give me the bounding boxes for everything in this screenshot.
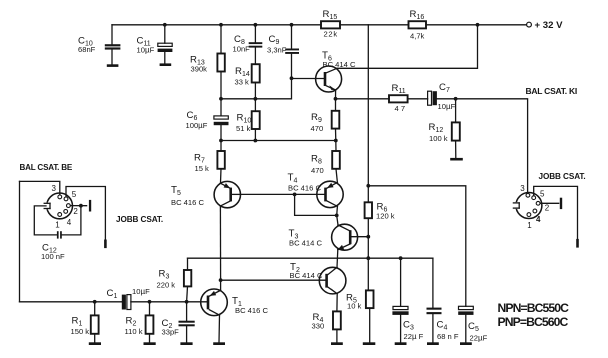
svg-text:120 k: 120 k: [376, 212, 395, 221]
svg-text:22µ F: 22µ F: [404, 332, 424, 341]
pin 3 (left DIN): [58, 195, 62, 199]
resistor R11: [389, 83, 408, 113]
node T6 emitter: [334, 97, 338, 101]
resistor R10: [236, 99, 260, 141]
svg-text:10µF: 10µF: [137, 46, 155, 55]
ground (C5): [460, 342, 472, 345]
wire left DIN pin2 to chassis ground: [71, 205, 87, 207]
ground chassis bar (left DIN): [89, 200, 91, 212]
svg-text:BC 414 C: BC 414 C: [289, 238, 322, 247]
node R3/C2 junction: [185, 300, 189, 304]
node T5/T4 base junction: [293, 193, 297, 197]
resistor R8: [311, 141, 340, 176]
capacitor C5 (electrolytic): [458, 306, 487, 342]
ground chassis bar (right DIN): [560, 198, 562, 209]
capacitor C10: [78, 25, 120, 65]
node T6 base junction: [290, 76, 294, 80]
wire T3 emitter to T2 collector: [336, 250, 339, 268]
node T4 collector / T3 collector: [335, 214, 339, 218]
capacitor C4: [427, 258, 459, 342]
wire C12 riser: [62, 206, 81, 235]
resistor R9: [311, 99, 340, 141]
svg-text:PNP=BC560C: PNP=BC560C: [498, 315, 569, 329]
wire top +32V rail left segment: [112, 24, 321, 26]
svg-text:100 k: 100 k: [429, 134, 448, 143]
wire T6 emitter down: [335, 90, 337, 99]
svg-text:68nF: 68nF: [78, 45, 96, 54]
svg-text:100µF: 100µF: [186, 121, 208, 130]
svg-text:2: 2: [545, 204, 550, 213]
node rail-C3: [399, 256, 403, 260]
svg-text:BAL CSAT. KI: BAL CSAT. KI: [526, 86, 577, 96]
node pin2/C12: [79, 204, 83, 208]
svg-text:JOBB CSAT.: JOBB CSAT.: [539, 172, 586, 181]
svg-text:2: 2: [73, 207, 78, 216]
ground (R2): [144, 342, 156, 345]
node rail-C9: [290, 23, 294, 27]
svg-text:68 n F: 68 n F: [437, 332, 459, 341]
resistor R1: [71, 302, 99, 343]
pin 1 (left DIN): [58, 213, 62, 217]
wire input left vertical: [19, 181, 21, 301]
ground (R1): [89, 342, 101, 345]
capacitor C3 (electrolytic): [392, 258, 423, 342]
node T3 base: [366, 235, 370, 239]
svg-text:150 k: 150 k: [71, 327, 90, 336]
svg-text:10nF: 10nF: [233, 45, 251, 54]
node bias-R10: [254, 97, 258, 101]
wire R11 to C7: [408, 98, 428, 100]
power terminal +32V: [527, 20, 564, 31]
wire T2 base: [221, 279, 326, 281]
transistor T6: [316, 51, 356, 93]
wire T1 emitter up to node: [220, 280, 222, 290]
bottom feedback rail: [188, 257, 433, 259]
node C7-R12: [454, 97, 458, 101]
wire T2 emitter to R4: [336, 294, 338, 312]
svg-text:22µF: 22µF: [470, 334, 488, 343]
wire right DIN pin2 to chassis ground: [540, 202, 558, 204]
wire T1 collector to ground: [218, 315, 221, 342]
capacitor C1 (electrolytic): [107, 287, 151, 310]
pin 1 (right DIN): [527, 213, 531, 217]
svg-text:4: 4: [536, 215, 541, 224]
resistor R4: [312, 311, 341, 342]
wire T5 base to T4 base: [240, 193, 294, 195]
wire feedback to C5: [368, 186, 466, 306]
svg-text:5: 5: [540, 190, 545, 199]
transistor T1: [201, 289, 269, 316]
svg-text:4: 4: [67, 218, 72, 227]
svg-text:33pF: 33pF: [162, 328, 180, 337]
wire input bottom row: [20, 301, 122, 303]
wire C9 node down to bias line: [221, 78, 292, 99]
wire T6 collector to +32V riser: [337, 25, 478, 69]
svg-text:15 k: 15 k: [195, 164, 210, 173]
capacitor C11 (electrolytic): [137, 25, 173, 64]
node mid-R10: [254, 139, 258, 143]
resistor R6: [365, 201, 395, 236]
svg-text:3: 3: [520, 184, 525, 193]
svg-text:330: 330: [312, 322, 325, 331]
resistor R5: [346, 258, 374, 342]
pin 5 (left DIN): [64, 197, 68, 201]
node rail-C8: [254, 23, 258, 27]
wire C12 left to notch: [34, 206, 57, 235]
stub end tick (right): [576, 240, 579, 246]
node rail-R13: [219, 23, 223, 27]
capacitor C7 (electrolytic): [428, 82, 456, 111]
pin 2 (right DIN): [536, 201, 540, 205]
svg-text:4 7: 4 7: [395, 104, 406, 113]
node R2: [148, 300, 152, 304]
ground (R4): [331, 342, 343, 345]
capacitor C6 (electrolytic): [186, 99, 229, 141]
wire C7 to output corner: [437, 99, 528, 193]
DIN connector input (left): [44, 193, 73, 219]
capacitor C8: [233, 25, 263, 64]
transistor T2: [290, 262, 346, 294]
node rail-R5 column: [366, 256, 370, 260]
resistor R3: [157, 258, 192, 302]
resistor R15: [321, 9, 340, 39]
transistor T4: [288, 173, 344, 208]
wire top rail right segment: [426, 24, 527, 26]
wire base node down and right to T4 collector node: [295, 194, 337, 215]
resistor R2: [125, 302, 154, 343]
pin 3 (right DIN): [526, 193, 530, 197]
svg-text:BC 414 C: BC 414 C: [290, 271, 323, 280]
svg-text:3,3nF: 3,3nF: [267, 45, 287, 54]
svg-text:NPN=BC550C: NPN=BC550C: [498, 301, 570, 315]
wire long vertical from rail node: [367, 25, 369, 203]
resistor R16: [409, 9, 427, 41]
svg-text:5: 5: [72, 190, 77, 199]
svg-text:100 nF: 100 nF: [41, 252, 65, 261]
resistor R14: [235, 64, 260, 99]
svg-text:470: 470: [311, 124, 324, 133]
wire top rail middle segment: [340, 24, 409, 26]
svg-text:110 k: 110 k: [125, 327, 143, 336]
wire left DIN pin5 to channel stub: [66, 187, 105, 244]
transistor T5: [171, 181, 241, 207]
svg-text:51 k: 51 k: [236, 124, 251, 133]
svg-text:1: 1: [527, 221, 532, 230]
pin 2 (left DIN): [67, 204, 71, 208]
capacitor C12: [41, 231, 65, 261]
ground (C4): [427, 342, 439, 345]
svg-text:+ 32 V: + 32 V: [535, 20, 564, 31]
wire C1 to T1 base: [131, 301, 207, 303]
ground (C11): [160, 63, 172, 66]
svg-text:4,7k: 4,7k: [410, 32, 425, 41]
svg-text:BC 416 C: BC 416 C: [235, 306, 268, 315]
svg-text:BC 414 C: BC 414 C: [323, 60, 356, 69]
node rail-C11: [163, 23, 167, 27]
capacitor C9: [267, 25, 299, 79]
ground (R5): [363, 342, 376, 345]
svg-text:JOBB CSAT.: JOBB CSAT.: [116, 215, 163, 224]
svg-text:390k: 390k: [191, 64, 208, 73]
svg-text:BC 416 C: BC 416 C: [288, 183, 321, 192]
wire right DIN pin5 to channel stub: [534, 186, 578, 243]
pin 4 (left DIN): [64, 210, 68, 214]
wire mid row y140: [221, 140, 336, 142]
transistor T3: [289, 224, 369, 250]
stub end tick (left): [104, 241, 107, 247]
svg-text:220 k: 220 k: [157, 281, 176, 290]
node T1 emitter / T5 collector: [219, 278, 223, 282]
ground (C10): [107, 64, 119, 67]
wire emitter row to R11: [336, 98, 390, 100]
node feedback junction: [366, 184, 370, 188]
pin 5 (right DIN): [532, 196, 536, 200]
node mid-R9R8: [334, 139, 338, 143]
svg-text:3: 3: [52, 184, 57, 193]
node mid-C6R7: [219, 139, 223, 143]
svg-text:1: 1: [55, 220, 60, 229]
svg-text:10µF: 10µF: [438, 102, 456, 111]
pin number labels (right DIN): [520, 184, 550, 230]
pin number labels (left DIN): [52, 184, 79, 230]
wire T3 collector up to node: [337, 215, 338, 225]
svg-text:22k: 22k: [324, 30, 338, 39]
node rail-T6 collector riser: [476, 23, 480, 27]
node R1: [93, 300, 97, 304]
wire T3 base node down to bottom rail: [367, 237, 369, 259]
ground (C2): [180, 342, 192, 345]
resistor R12: [429, 99, 460, 158]
ground (R12): [450, 158, 463, 161]
svg-text:470: 470: [311, 166, 324, 175]
node bias-C6: [219, 97, 223, 101]
svg-text:BAL CSAT. BE: BAL CSAT. BE: [20, 163, 73, 172]
resistor R13: [190, 25, 225, 99]
resistor R7: [194, 141, 225, 183]
wire T4 collector down to node: [336, 206, 339, 215]
svg-text:10 k: 10 k: [347, 302, 362, 311]
pin 4 (right DIN): [533, 209, 537, 213]
wire T5 collector down: [219, 206, 221, 280]
capacitor C2: [162, 302, 195, 343]
ground (C3): [395, 342, 407, 345]
wire T4 emitter to R8: [336, 169, 337, 183]
wire input top to DIN pin3: [20, 181, 60, 194]
wire T6 base: [292, 78, 325, 80]
svg-text:10µF: 10µF: [132, 287, 150, 296]
DIN connector output (right): [513, 193, 542, 219]
ground (T1): [213, 342, 225, 345]
svg-text:33 k: 33 k: [235, 78, 250, 87]
svg-text:BC 416 C: BC 416 C: [171, 198, 204, 207]
